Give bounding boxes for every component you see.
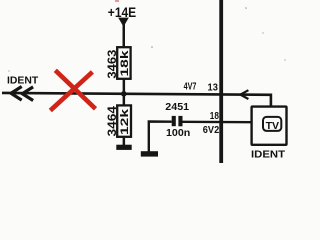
svg-text:TV: TV xyxy=(266,121,280,132)
svg-text:100n: 100n xyxy=(166,127,190,139)
svg-text:18: 18 xyxy=(210,110,219,122)
svg-text:6V2: 6V2 xyxy=(203,124,220,136)
svg-text:2451: 2451 xyxy=(165,101,189,113)
svg-text:13: 13 xyxy=(208,82,219,94)
svg-text:3463: 3463 xyxy=(107,50,119,79)
svg-text:IDENT: IDENT xyxy=(7,75,39,87)
svg-text:4V7: 4V7 xyxy=(184,82,197,93)
svg-text:18k: 18k xyxy=(119,49,131,76)
svg-text:12k: 12k xyxy=(119,108,131,135)
svg-text:+14E: +14E xyxy=(108,5,136,20)
svg-text:3464: 3464 xyxy=(107,105,119,136)
svg-text:IDENT: IDENT xyxy=(251,148,286,160)
